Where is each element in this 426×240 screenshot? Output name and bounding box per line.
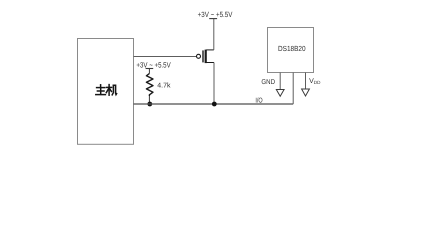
power rail bar (MOSFET supply) (209, 18, 217, 20)
glyph 机 (107, 86, 112, 88)
GND pin wire (279, 73, 281, 90)
wire: host to MOSFET gate (134, 56, 197, 58)
host label 主机 (drawn strokes) (96, 85, 117, 96)
source stub (206, 62, 214, 64)
junction dot (MOSFET/bus) (212, 102, 217, 107)
junction dot (resistor/bus) (147, 102, 152, 107)
resistor 4.7k (zigzag) (146, 74, 153, 97)
DS18B20 box (268, 28, 314, 73)
wire: resistor bottom to bus (148, 96, 150, 104)
VDD pin wire (305, 73, 307, 90)
glyph 主 (100, 85, 102, 87)
power rail bar (resistor branch) (146, 68, 154, 70)
MOSFET Q1 (P-channel pull-up) (197, 50, 215, 64)
svg-text:4.7k: 4.7k (157, 81, 171, 89)
svg-text:+3V ~ +5.5V: +3V ~ +5.5V (198, 10, 234, 19)
svg-text:+3V ~ +5.5V: +3V ~ +5.5V (136, 60, 171, 69)
wire: MOSFET source to bus (213, 63, 215, 105)
svg-text:I/O: I/O (255, 96, 263, 104)
GND terminal triangle (276, 90, 284, 97)
channel bar (205, 50, 207, 64)
wire: MOSFET drain to supply (213, 19, 215, 50)
gate bar (202, 50, 204, 62)
wire: power bar to resistor top (148, 69, 150, 74)
gate bubble (197, 54, 201, 58)
1-wire bus (I/O line) (134, 103, 294, 105)
host box 主机 (78, 39, 134, 145)
svg-text:DS18B20: DS18B20 (278, 44, 306, 53)
svg-text:GND: GND (261, 79, 275, 86)
DQ pin wire (bus to DS18B20) (292, 73, 294, 105)
svg-text:VDD: VDD (309, 78, 321, 85)
VDD terminal triangle (302, 89, 310, 96)
drain stub (206, 49, 214, 51)
